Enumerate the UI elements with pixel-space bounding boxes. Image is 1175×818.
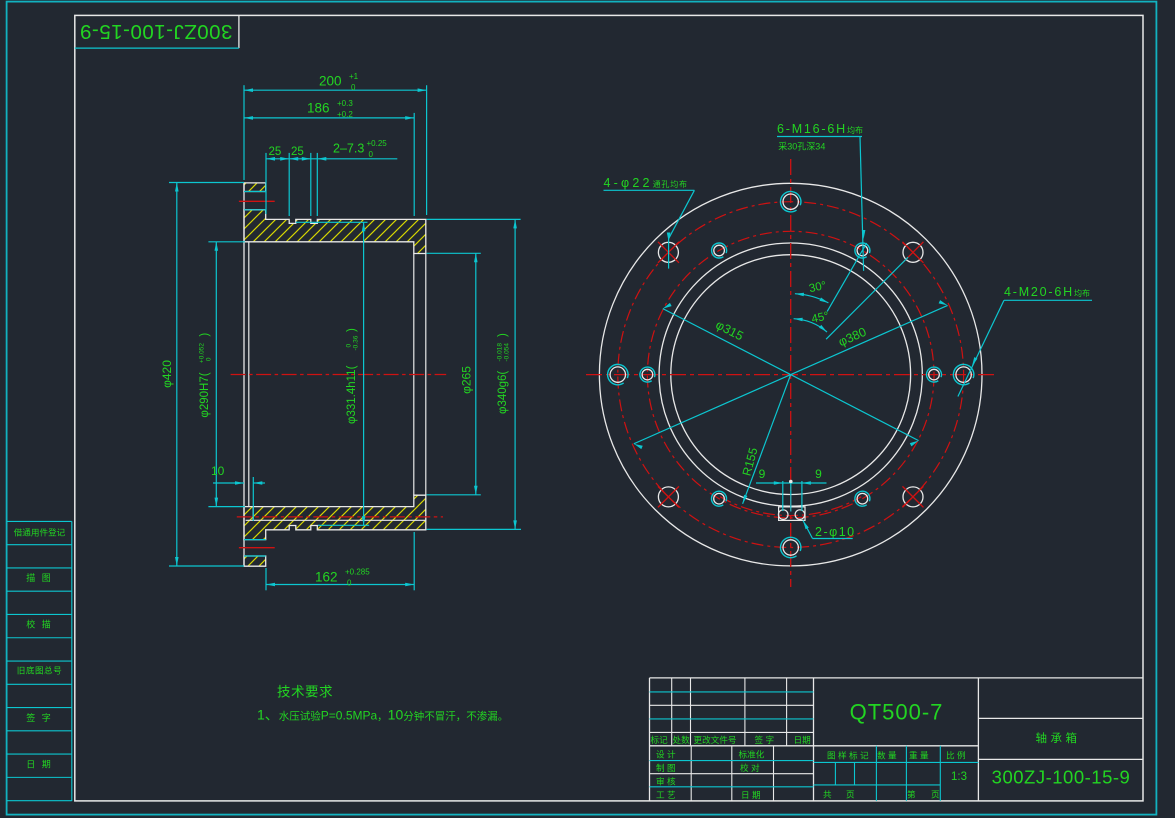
sidebar label 借通用件登记 [14, 526, 66, 537]
tapped hole M16 #3 (120°) [709, 240, 730, 261]
title block grid [650, 678, 1144, 801]
svg-text:25: 25 [291, 146, 304, 158]
svg-text:工 艺: 工 艺 [656, 790, 676, 800]
svg-text:25: 25 [269, 146, 282, 158]
svg-text:图 样 标 记: 图 样 标 记 [827, 750, 869, 761]
svg-text:QT500-7: QT500-7 [850, 700, 944, 725]
dimension R155 [740, 375, 791, 505]
tapped hole M20 #3 (180°) [604, 360, 632, 388]
through hole φ22 #2 (135°) [658, 242, 679, 263]
dimension 200 +1/0 [244, 72, 427, 215]
svg-text:0: 0 [351, 83, 356, 92]
angle dimension 30° [795, 243, 867, 311]
dimension 2-7.3 +0.25/0 [317, 139, 397, 159]
svg-text:标记: 标记 [651, 734, 669, 745]
svg-text:162: 162 [315, 570, 338, 585]
svg-text:0: 0 [369, 150, 374, 159]
tapped hole M16 #1 (0°) [924, 364, 945, 385]
svg-text:页: 页 [931, 789, 940, 799]
svg-text:2-φ10: 2-φ10 [815, 525, 856, 539]
section centerlines (red) [231, 201, 447, 547]
angle dimension 45° [793, 257, 908, 339]
svg-text:校 对: 校 对 [740, 762, 760, 773]
dimension φ315 [662, 303, 919, 446]
svg-text:300ZJ-100-15-9: 300ZJ-100-15-9 [80, 20, 233, 43]
svg-text:2–7.3: 2–7.3 [333, 142, 364, 156]
svg-text:旧底图总号: 旧底图总号 [17, 665, 62, 676]
through hole φ22 #4 (315°) [902, 486, 923, 507]
svg-text:设 计: 设 计 [656, 748, 676, 759]
sidebar label 签字 [26, 712, 53, 723]
dimension φ380 [633, 300, 948, 449]
svg-text:0: 0 [206, 357, 213, 361]
svg-text:0: 0 [347, 579, 352, 588]
svg-text:描 图: 描 图 [26, 572, 53, 583]
svg-text:+0.2: +0.2 [337, 110, 353, 119]
svg-text:-0.054: -0.054 [504, 343, 511, 362]
dimension φ420 [160, 183, 244, 567]
svg-text:采30孔深34: 采30孔深34 [778, 142, 825, 152]
svg-text:9: 9 [815, 467, 822, 481]
dimension φ340g6 [427, 219, 521, 529]
svg-text:φ340g6(: φ340g6( [497, 371, 509, 414]
svg-text:φ290H7(: φ290H7( [199, 372, 211, 417]
svg-text:第: 第 [907, 788, 916, 799]
2-φ10 holes and boss [778, 507, 805, 521]
svg-text:日 期: 日 期 [741, 790, 761, 800]
tapped hole M20 #1 (0°) [949, 360, 977, 388]
dimension 162 +0.285/0 [266, 532, 414, 590]
svg-text:轴承箱: 轴承箱 [1036, 731, 1081, 745]
bolt circles (red dashed) and R155 arc [618, 202, 964, 548]
dimension 25 25 [266, 146, 326, 216]
sidebar label 校描 [26, 619, 53, 630]
svg-text:): ) [199, 333, 211, 337]
part name 轴承箱 [1036, 731, 1081, 745]
tapped hole M16 #6 (300°) [852, 488, 873, 509]
svg-text:更改文件号: 更改文件号 [694, 734, 737, 745]
tech requirements line 1 [257, 707, 508, 723]
svg-text:): ) [346, 328, 358, 332]
sidebar label 旧底图总号 [17, 665, 62, 676]
left sidebar grid [7, 521, 72, 801]
dimension φ265 [427, 253, 481, 494]
dimension φ290H7 [199, 242, 245, 507]
svg-text:186: 186 [307, 101, 330, 116]
tapped hole M16 #5 (240°) [709, 488, 730, 509]
flange bolt hole thread lines [244, 192, 266, 557]
svg-text:日 期: 日 期 [26, 759, 53, 769]
svg-text:比 例: 比 例 [946, 750, 966, 761]
title text QT500-7 [850, 700, 944, 725]
sidebar label 描图 [26, 572, 53, 583]
svg-text:φ265: φ265 [459, 366, 473, 394]
svg-text:签 字: 签 字 [26, 712, 53, 723]
label 6-M16-6H (leader) [777, 122, 865, 271]
svg-text:标准化: 标准化 [739, 748, 765, 759]
svg-text:重 量: 重 量 [909, 750, 929, 761]
flange outer and bore circles [599, 183, 982, 566]
section hatch (yellow) [244, 183, 426, 566]
circle view centerlines (red) [586, 159, 998, 587]
svg-text:300ZJ-100-15-9: 300ZJ-100-15-9 [992, 767, 1131, 788]
tapped hole M20 #4 (270°) [776, 533, 804, 561]
svg-text:制 图: 制 图 [656, 762, 676, 773]
svg-text:校 描: 校 描 [26, 619, 53, 630]
label 2-φ10 (leader) [801, 520, 855, 539]
svg-text:10: 10 [211, 464, 225, 478]
svg-text:φ331.4h11(: φ331.4h11( [346, 365, 358, 424]
svg-text:φ420: φ420 [160, 360, 174, 388]
svg-text:共: 共 [823, 789, 832, 799]
tech requirements heading [277, 685, 333, 700]
sidebar label 日期 [26, 759, 53, 769]
svg-text:-0.36: -0.36 [353, 335, 360, 350]
svg-text:+0.052: +0.052 [199, 343, 206, 363]
dimension φ331.4h11 [296, 222, 369, 525]
svg-text:处数: 处数 [673, 734, 691, 745]
label 4-φ22 (leader) [604, 176, 695, 269]
svg-text:-0.018: -0.018 [497, 343, 504, 362]
through hole φ22 #3 (225°) [658, 486, 679, 507]
svg-text:审 核: 审 核 [656, 775, 676, 786]
svg-text:0: 0 [346, 344, 353, 348]
drawing number 300ZJ-100-15-9 [992, 767, 1131, 788]
through hole φ22 #1 (45°) [902, 242, 923, 263]
dimension 186 +0.3/+0.2 [244, 99, 414, 216]
svg-text:+0.3: +0.3 [337, 99, 353, 108]
tapped hole M16 #2 (60°) [852, 240, 873, 261]
svg-text:+0.25: +0.25 [367, 139, 388, 148]
svg-text:200: 200 [319, 74, 342, 89]
tapped hole M16 #4 (180°) [637, 364, 658, 385]
svg-text:): ) [497, 333, 509, 337]
svg-text:借通用件登记: 借通用件登记 [14, 526, 66, 537]
svg-text:1:3: 1:3 [951, 771, 967, 783]
section outline (white) [244, 183, 426, 566]
label 4-M20-6H (leader) [958, 285, 1092, 397]
title block small labels [651, 734, 968, 800]
svg-text:数 量: 数 量 [877, 750, 897, 761]
svg-text:日期: 日期 [794, 735, 811, 745]
svg-text:技术要求: 技术要求 [277, 685, 333, 700]
svg-text:+1: +1 [349, 72, 359, 81]
svg-text:9: 9 [759, 467, 766, 481]
dimension 10 [211, 464, 265, 521]
svg-text:+0.285: +0.285 [345, 568, 370, 577]
tapped hole M20 #2 (90°) [776, 187, 804, 215]
dimension 9 9 [756, 467, 827, 512]
svg-text:页: 页 [846, 789, 855, 799]
top-left drawing number box (rotated 180) [75, 15, 239, 48]
svg-text:签 字: 签 字 [755, 734, 775, 745]
